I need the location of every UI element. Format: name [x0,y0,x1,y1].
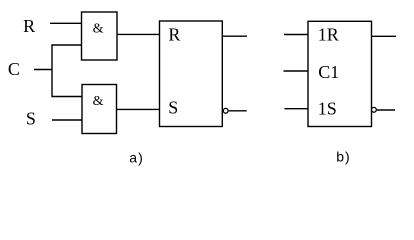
wire R to gate G1 [50,22,82,24]
wire C branch to gate G1 [52,44,82,46]
RS latch U1 body [160,21,223,127]
AND gate G1 body [82,12,118,60]
RS trigger U2 body [308,21,372,126]
svg-text:&: & [93,21,104,36]
AND gate G2 body [82,85,117,134]
wire C stub [34,69,52,71]
inversion bubble on U2 complementary output [372,107,377,112]
svg-text:C: C [8,59,20,79]
wire C branch to gate G2 [52,96,83,98]
wire S to gate G2 [52,119,83,121]
wire G2 output to latch S input [117,108,160,110]
svg-text:&: & [93,94,104,109]
svg-text:b): b) [336,149,350,165]
inversion bubble on U1 complementary output [223,108,228,113]
svg-text:R: R [23,16,35,36]
svg-text:1S: 1S [318,99,337,119]
wire input 1S [284,108,308,110]
wire input C1 [284,70,309,72]
wire U2 complementary output [377,109,395,111]
wire U1 complementary output [229,110,247,112]
svg-text:S: S [168,98,178,118]
wire U2 direct output Q [372,35,397,37]
wire U1 direct output Q [222,35,247,37]
svg-text:S: S [26,108,36,128]
svg-text:C1: C1 [318,62,339,82]
wire G1 output to latch R input [117,33,160,35]
svg-text:1R: 1R [318,24,339,44]
wire input 1R [284,34,308,36]
svg-text:R: R [168,25,180,45]
wire C branch vertical [51,44,53,97]
svg-text:a): a) [129,150,143,166]
